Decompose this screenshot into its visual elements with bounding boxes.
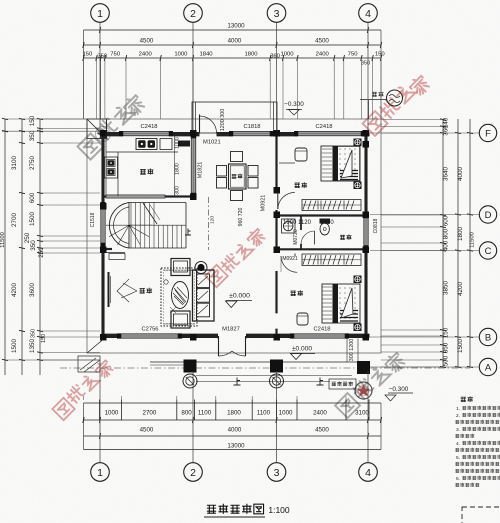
door M1827 double entrance <box>217 336 219 339</box>
watermark stamp top-left <box>96 127 111 142</box>
svg-text:2400: 2400 <box>313 410 327 417</box>
svg-text:3850: 3850 <box>443 281 450 296</box>
stair/living wall at axis C left part <box>103 248 112 250</box>
plant round table <box>195 262 207 274</box>
svg-text:4500: 4500 <box>315 427 329 434</box>
kitchen sink left <box>105 157 118 178</box>
eave outline <box>87 119 381 353</box>
desk chair bedroom1 <box>295 148 307 161</box>
svg-text:1500: 1500 <box>11 339 18 354</box>
svg-text:4200: 4200 <box>11 283 18 298</box>
toilet <box>320 219 331 224</box>
watermark bottom-right <box>335 393 360 418</box>
svg-text:C2418: C2418 <box>140 124 157 130</box>
chimney rect below stairs <box>109 254 125 260</box>
svg-text:3100: 3100 <box>11 156 18 171</box>
svg-text:3: 3 <box>274 467 280 479</box>
svg-text:4500: 4500 <box>140 427 154 434</box>
window C0818 right (bath) <box>364 218 368 246</box>
left exterior wall <box>101 133 104 206</box>
small appliance <box>160 139 172 150</box>
svg-text:1800: 1800 <box>175 163 181 175</box>
svg-text:3.: 3. <box>456 427 460 433</box>
svg-text:4000: 4000 <box>228 38 242 45</box>
door M1021 arc <box>200 116 217 133</box>
bath inner wall M0720 <box>300 216 302 231</box>
bottom extension lines <box>83 396 85 400</box>
svg-text:1000: 1000 <box>105 410 119 417</box>
sofa main (right) <box>193 270 215 321</box>
living label + leader <box>117 279 137 302</box>
axis bubbles bottom <box>91 463 110 482</box>
svg-text:150: 150 <box>375 52 386 58</box>
porch column axis4 <box>357 361 370 374</box>
svg-text:600: 600 <box>443 215 450 226</box>
svg-text:750: 750 <box>110 52 121 58</box>
svg-text:1840: 1840 <box>199 52 213 58</box>
svg-text:D: D <box>485 210 492 221</box>
svg-text:1.: 1. <box>456 406 460 412</box>
svg-text:2700: 2700 <box>143 410 157 417</box>
scan noise <box>0 0 1 1</box>
svg-text:M0921: M0921 <box>282 256 298 262</box>
svg-text:1:100: 1:100 <box>268 505 290 515</box>
armchair bottom <box>171 311 190 328</box>
svg-text:1: 1 <box>97 467 103 479</box>
window C1818 top <box>233 131 270 135</box>
svg-text:850: 850 <box>443 342 450 353</box>
bottom dimension lines <box>84 402 382 404</box>
porch column axis2 <box>184 360 197 373</box>
svg-text:2750: 2750 <box>29 156 36 171</box>
svg-text:4500: 4500 <box>140 38 154 45</box>
svg-text:−0.300: −0.300 <box>389 386 409 393</box>
svg-text:960 720: 960 720 <box>238 208 244 227</box>
svg-text:A: A <box>485 362 492 373</box>
svg-text:2700: 2700 <box>11 213 18 228</box>
svg-text:150: 150 <box>29 115 36 126</box>
svg-text:C2756: C2756 <box>141 327 158 333</box>
top exterior wall (axis F) <box>102 132 124 136</box>
svg-text:1500: 1500 <box>29 212 36 227</box>
svg-text:M1827: M1827 <box>222 327 240 333</box>
svg-text:13000: 13000 <box>227 443 245 450</box>
watermark center <box>205 265 227 287</box>
svg-text:150: 150 <box>41 334 47 343</box>
svg-text:1200 300: 1200 300 <box>220 109 226 131</box>
svg-text:1100: 1100 <box>198 410 212 417</box>
svg-text:800: 800 <box>181 410 192 417</box>
dining table <box>229 164 247 189</box>
right dimension lines <box>442 119 444 367</box>
door M0921 bedroom1 <box>277 192 279 209</box>
label bedroom2 <box>291 291 296 296</box>
svg-text:600: 600 <box>29 192 36 203</box>
svg-text:800: 800 <box>443 228 450 239</box>
bath bottom wall (axis C) <box>277 248 369 250</box>
svg-text:300: 300 <box>175 186 181 195</box>
entry porch outline top <box>192 102 277 133</box>
svg-text:1350: 1350 <box>29 339 36 354</box>
svg-text:F: F <box>485 128 491 139</box>
watermark bottom-left <box>52 398 74 420</box>
svg-text:1500: 1500 <box>457 339 464 354</box>
wardrobe bedroom1 <box>302 200 361 211</box>
svg-text:300 1200: 300 1200 <box>349 339 355 361</box>
corridor dashdot line <box>208 197 210 250</box>
svg-text:1000: 1000 <box>279 410 293 417</box>
right exterior wall <box>364 133 367 218</box>
svg-text:360: 360 <box>270 54 281 60</box>
svg-text:C0818: C0818 <box>373 218 379 233</box>
svg-text:1000: 1000 <box>174 52 188 58</box>
svg-text:1000 1120: 1000 1120 <box>283 220 312 226</box>
svg-text:3100: 3100 <box>355 410 369 417</box>
svg-text:11500: 11500 <box>0 232 6 248</box>
kitchen counter top <box>106 151 178 153</box>
svg-text:1800: 1800 <box>244 52 258 58</box>
stool bedroom2 <box>297 313 308 325</box>
TV on left wall <box>108 272 110 307</box>
svg-text:120: 120 <box>210 216 216 224</box>
svg-text:350: 350 <box>29 130 36 141</box>
svg-text:3600: 3600 <box>29 283 36 298</box>
svg-text:4: 4 <box>365 8 371 20</box>
outdoor steps label box <box>329 379 356 389</box>
svg-text:C2418: C2418 <box>313 327 330 333</box>
bed bedroom1 <box>321 146 360 181</box>
window C2418 kitchen top <box>123 131 169 135</box>
rug <box>161 268 197 326</box>
window C2418 bedroom2 bottom <box>294 334 345 338</box>
left dimension lines <box>4 119 6 375</box>
svg-text:C1818: C1818 <box>243 124 260 130</box>
bed bedroom2 <box>322 284 360 323</box>
svg-text:±0.000: ±0.000 <box>229 293 250 300</box>
door M0921 bedroom2 arc <box>294 254 296 257</box>
svg-text:−0.300: −0.300 <box>284 101 304 108</box>
title <box>207 505 215 513</box>
svg-text:350: 350 <box>361 61 370 67</box>
armchair top <box>171 259 190 276</box>
corner flue top-left <box>87 119 107 139</box>
svg-text:M0921: M0921 <box>261 195 267 211</box>
svg-text:4200: 4200 <box>457 282 464 297</box>
bath top wall (axis D) <box>277 214 369 216</box>
label bedroom1 <box>295 183 300 188</box>
svg-text:1800: 1800 <box>457 227 464 242</box>
watermark top-left <box>77 133 103 159</box>
svg-text:2400: 2400 <box>139 52 153 58</box>
svg-text:500: 500 <box>443 355 450 366</box>
columns <box>100 130 107 137</box>
wash basin <box>282 219 296 233</box>
coffee table oval <box>172 282 189 309</box>
watermark stamp bottom-right <box>355 382 372 399</box>
svg-text:C2418: C2418 <box>315 124 332 130</box>
window C2756 living bottom <box>121 334 178 338</box>
stair break line <box>143 203 157 224</box>
svg-text:1100: 1100 <box>257 410 271 417</box>
label bath <box>340 235 344 239</box>
svg-text:2400: 2400 <box>316 52 330 58</box>
svg-text:C1518: C1518 <box>90 212 96 227</box>
nightstands bedroom2 <box>354 276 362 284</box>
top extension lines <box>83 58 85 119</box>
window C2418 bedroom1 top <box>298 131 361 135</box>
nightstands bedroom1 <box>354 139 362 147</box>
svg-text:11500: 11500 <box>470 232 476 248</box>
svg-text:3: 3 <box>274 8 280 20</box>
svg-text:1: 1 <box>97 8 103 20</box>
label dining <box>232 174 236 178</box>
svg-text:4000: 4000 <box>228 427 242 434</box>
window C1518 left <box>101 206 105 243</box>
svg-text:350: 350 <box>30 240 37 251</box>
svg-text:1000: 1000 <box>280 52 294 58</box>
svg-text:C: C <box>485 246 492 257</box>
svg-text:±0.000: ±0.000 <box>292 346 312 353</box>
svg-text:13000: 13000 <box>227 23 245 30</box>
svg-text:750: 750 <box>348 52 359 58</box>
right tick extension lines <box>381 119 443 121</box>
left small steps <box>78 356 100 372</box>
axis A dash-dot line <box>60 367 470 369</box>
watermark top-right <box>363 111 388 136</box>
svg-text:6.: 6. <box>456 476 460 482</box>
svg-text:M1821: M1821 <box>198 162 204 178</box>
axis bubbles right <box>479 124 496 141</box>
door M1821 sliding <box>191 138 196 193</box>
stove 2-burner <box>136 139 157 150</box>
svg-text:2: 2 <box>190 8 196 20</box>
svg-text:B: B <box>485 332 491 343</box>
left tick extension lines <box>2 130 100 132</box>
notes block <box>461 397 466 402</box>
porch steps bottom <box>196 375 352 377</box>
wardrobe bedroom2 <box>302 254 361 266</box>
eave diagonal bottom-left <box>87 340 103 354</box>
rainwater pipe symbol <box>387 90 403 106</box>
kitchen bottom wall <box>103 195 191 197</box>
wall axis 3 vertical <box>275 134 277 190</box>
stair outline right <box>185 203 187 249</box>
porch column axis3 <box>270 360 283 373</box>
svg-text:3640: 3640 <box>443 167 450 182</box>
svg-text:400: 400 <box>443 240 450 251</box>
svg-text:4500: 4500 <box>315 38 329 45</box>
svg-text:4000: 4000 <box>457 167 464 182</box>
axis bubbles top <box>91 4 110 23</box>
svg-text:4.: 4. <box>456 441 460 447</box>
svg-text:4: 4 <box>365 467 371 479</box>
svg-text:350: 350 <box>31 329 37 338</box>
svg-text:M0720: M0720 <box>293 229 299 245</box>
up arrows porch <box>234 378 241 386</box>
porch floor lines bottom <box>150 361 370 363</box>
svg-text:2.: 2. <box>456 413 460 419</box>
svg-text:1800: 1800 <box>227 410 241 417</box>
label kitchen <box>140 169 145 174</box>
bottom exterior wall (axis B) <box>102 334 122 338</box>
up label stair <box>185 229 191 236</box>
svg-text:5.: 5. <box>456 455 460 461</box>
dashed box corner <box>462 507 500 523</box>
staircase <box>129 203 152 249</box>
svg-text:2: 2 <box>190 467 196 479</box>
svg-text:M1021: M1021 <box>203 140 221 146</box>
top dimension lines <box>84 29 382 31</box>
svg-text:350: 350 <box>97 54 108 60</box>
